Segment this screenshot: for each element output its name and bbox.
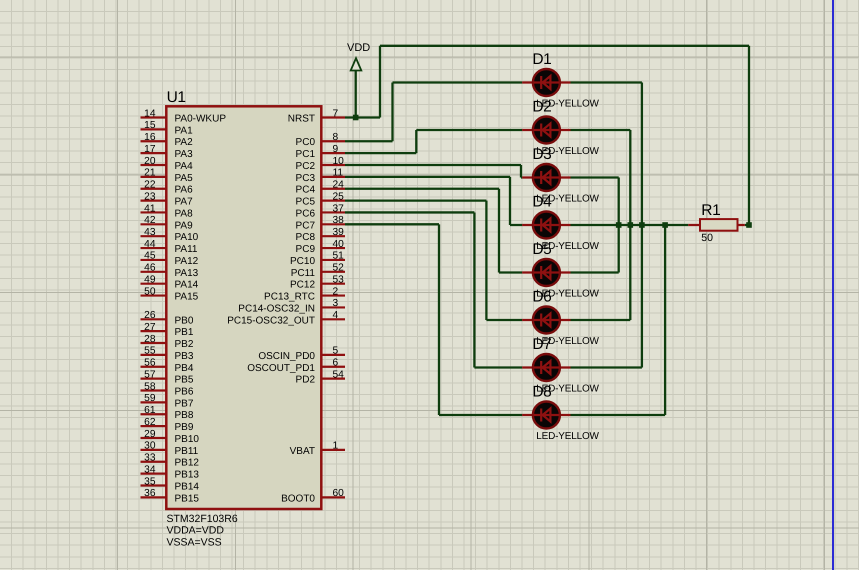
svg-text:41: 41 — [144, 203, 156, 214]
svg-text:5: 5 — [333, 346, 339, 357]
svg-text:39: 39 — [333, 227, 345, 238]
svg-text:PC3: PC3 — [296, 173, 316, 184]
svg-text:D7: D7 — [532, 336, 551, 353]
svg-text:22: 22 — [144, 180, 156, 191]
svg-text:PC1: PC1 — [296, 149, 316, 160]
svg-text:D5: D5 — [532, 241, 551, 258]
svg-text:PC6: PC6 — [296, 209, 316, 220]
svg-text:PC14-OSC32_IN: PC14-OSC32_IN — [238, 303, 315, 314]
svg-text:PA10: PA10 — [175, 232, 199, 243]
svg-text:4: 4 — [333, 310, 339, 321]
svg-text:PB5: PB5 — [175, 375, 194, 386]
svg-text:24: 24 — [333, 180, 345, 191]
svg-text:PA9: PA9 — [175, 220, 194, 231]
svg-text:PC15-OSC32_OUT: PC15-OSC32_OUT — [227, 315, 315, 326]
svg-text:PD2: PD2 — [296, 375, 316, 386]
svg-text:42: 42 — [144, 215, 156, 226]
svg-text:52: 52 — [333, 263, 345, 274]
svg-text:PA4: PA4 — [175, 161, 194, 172]
svg-text:10: 10 — [333, 156, 345, 167]
svg-text:PB15: PB15 — [175, 493, 200, 504]
svg-text:PA13: PA13 — [175, 268, 199, 279]
svg-text:D2: D2 — [532, 99, 551, 116]
svg-text:PC5: PC5 — [296, 197, 316, 208]
svg-text:35: 35 — [144, 476, 156, 487]
svg-text:PB6: PB6 — [175, 387, 194, 398]
svg-text:44: 44 — [144, 239, 156, 250]
svg-text:2: 2 — [333, 286, 339, 297]
svg-text:15: 15 — [144, 120, 156, 131]
svg-text:16: 16 — [144, 132, 156, 143]
svg-text:PB11: PB11 — [175, 446, 199, 457]
svg-text:PC11: PC11 — [291, 268, 316, 279]
svg-text:VSSA=VSS: VSSA=VSS — [167, 537, 222, 549]
svg-text:PB2: PB2 — [175, 339, 194, 350]
svg-text:61: 61 — [144, 405, 156, 416]
svg-text:PC9: PC9 — [296, 244, 316, 255]
svg-text:PA12: PA12 — [175, 256, 199, 267]
svg-text:9: 9 — [333, 144, 339, 155]
svg-text:49: 49 — [144, 275, 156, 286]
svg-text:3: 3 — [333, 298, 339, 309]
svg-text:36: 36 — [144, 488, 156, 499]
svg-text:55: 55 — [144, 346, 156, 357]
svg-text:PB10: PB10 — [175, 434, 200, 445]
svg-text:PB14: PB14 — [175, 482, 200, 493]
svg-text:PA15: PA15 — [175, 292, 199, 303]
svg-text:40: 40 — [333, 239, 345, 250]
svg-text:PA11: PA11 — [175, 244, 198, 255]
svg-text:OSCIN_PD0: OSCIN_PD0 — [258, 351, 315, 362]
svg-text:PB8: PB8 — [175, 410, 194, 421]
svg-text:PB13: PB13 — [175, 470, 200, 481]
svg-text:53: 53 — [333, 275, 345, 286]
svg-text:PA14: PA14 — [175, 280, 199, 291]
svg-text:PA6: PA6 — [175, 185, 194, 196]
svg-text:29: 29 — [144, 429, 156, 440]
svg-text:28: 28 — [144, 334, 156, 345]
svg-text:23: 23 — [144, 191, 156, 202]
svg-text:PB3: PB3 — [175, 351, 194, 362]
svg-text:60: 60 — [333, 488, 345, 499]
svg-text:PC2: PC2 — [296, 161, 316, 172]
svg-text:21: 21 — [144, 168, 156, 179]
svg-text:PC12: PC12 — [290, 280, 315, 291]
svg-text:PC7: PC7 — [296, 220, 316, 231]
svg-text:56: 56 — [144, 358, 156, 369]
svg-text:PB9: PB9 — [175, 422, 194, 433]
svg-text:VDDA=VDD: VDDA=VDD — [167, 525, 225, 537]
svg-text:45: 45 — [144, 251, 156, 262]
svg-text:30: 30 — [144, 441, 156, 452]
svg-text:26: 26 — [144, 310, 156, 321]
svg-text:50: 50 — [144, 286, 156, 297]
svg-text:27: 27 — [144, 322, 156, 333]
svg-text:20: 20 — [144, 156, 156, 167]
svg-text:11: 11 — [333, 168, 344, 179]
svg-text:PC8: PC8 — [296, 232, 316, 243]
svg-text:D4: D4 — [532, 194, 552, 211]
svg-text:14: 14 — [144, 108, 156, 119]
svg-text:58: 58 — [144, 381, 156, 392]
svg-text:D8: D8 — [532, 384, 551, 401]
svg-text:D1: D1 — [532, 51, 551, 68]
svg-text:34: 34 — [144, 464, 156, 475]
svg-text:PB4: PB4 — [175, 363, 194, 374]
svg-text:37: 37 — [333, 203, 345, 214]
svg-text:PA7: PA7 — [175, 197, 194, 208]
svg-text:STM32F103R6: STM32F103R6 — [167, 513, 238, 525]
svg-text:PA8: PA8 — [175, 209, 194, 220]
svg-text:NRST: NRST — [288, 114, 315, 125]
svg-text:LED-YELLOW: LED-YELLOW — [536, 431, 599, 442]
svg-text:57: 57 — [144, 369, 156, 380]
svg-text:33: 33 — [144, 453, 156, 464]
svg-text:U1: U1 — [167, 89, 186, 106]
svg-text:PA1: PA1 — [175, 125, 194, 136]
svg-text:51: 51 — [333, 251, 345, 262]
svg-text:PB12: PB12 — [175, 458, 200, 469]
svg-text:VDD: VDD — [347, 42, 370, 54]
svg-text:D3: D3 — [532, 146, 551, 163]
svg-text:46: 46 — [144, 263, 156, 274]
svg-text:8: 8 — [333, 132, 339, 143]
svg-text:D6: D6 — [532, 289, 551, 306]
svg-text:VBAT: VBAT — [290, 446, 315, 457]
svg-text:OSCOUT_PD1: OSCOUT_PD1 — [247, 363, 315, 374]
svg-text:PA5: PA5 — [175, 173, 194, 184]
svg-text:PA0-WKUP: PA0-WKUP — [175, 114, 227, 125]
svg-text:BOOT0: BOOT0 — [281, 493, 315, 504]
svg-text:62: 62 — [144, 417, 156, 428]
svg-text:PB1: PB1 — [175, 327, 194, 338]
svg-text:PC10: PC10 — [290, 256, 315, 267]
svg-text:PC0: PC0 — [296, 137, 316, 148]
svg-text:38: 38 — [333, 215, 345, 226]
svg-text:6: 6 — [333, 358, 339, 369]
svg-text:R1: R1 — [701, 202, 720, 219]
svg-text:25: 25 — [333, 191, 345, 202]
svg-text:PC4: PC4 — [296, 185, 316, 196]
svg-text:59: 59 — [144, 393, 156, 404]
svg-text:PB0: PB0 — [175, 315, 194, 326]
svg-text:1: 1 — [333, 441, 339, 452]
svg-text:54: 54 — [333, 369, 345, 380]
svg-text:7: 7 — [333, 108, 339, 119]
svg-text:PC13_RTC: PC13_RTC — [264, 292, 315, 303]
svg-text:PB7: PB7 — [175, 398, 194, 409]
svg-text:PA2: PA2 — [175, 137, 194, 148]
svg-text:17: 17 — [144, 144, 156, 155]
svg-text:PA3: PA3 — [175, 149, 194, 160]
svg-text:50: 50 — [701, 232, 713, 244]
svg-text:43: 43 — [144, 227, 156, 238]
